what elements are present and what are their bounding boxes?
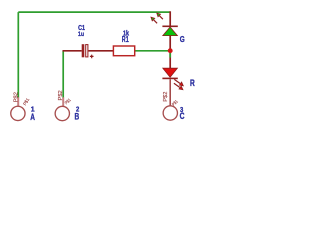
connector J3 pin leg: [169, 79, 171, 106]
capacitor C1 plate positive: [86, 45, 88, 57]
connector J1 pin leg: [17, 97, 19, 106]
svg-text:B: B: [75, 112, 80, 122]
svg-text:R: R: [190, 78, 195, 88]
connector J2 circle: [55, 106, 69, 120]
LED D1 lead top: [169, 11, 171, 26]
LED D1 light arrows: [151, 13, 163, 23]
svg-text:P$1: P$1: [22, 97, 30, 106]
svg-text:G: G: [180, 34, 185, 44]
capacitor C1 lead left: [63, 50, 82, 52]
wire vertical from C1 to connector J2: [62, 51, 64, 98]
capacitor C1 plus sign: [90, 55, 94, 59]
capacitor C1 plate negative: [82, 44, 85, 57]
svg-text:P$2: P$2: [163, 91, 169, 101]
LED D1 green cathode bar: [162, 25, 177, 27]
wire from R1 to LED node: [135, 50, 170, 52]
svg-text:P$2: P$2: [14, 92, 20, 102]
svg-text:1k: 1k: [123, 29, 130, 38]
LED D1 green triangle: [163, 27, 178, 36]
wire vertical between LEDs: [169, 35, 171, 68]
LED D2 red cathode bar: [162, 77, 177, 79]
LED D2 light arrows: [174, 79, 184, 89]
svg-text:P$2: P$2: [58, 90, 64, 100]
wire short vertical below junction: [169, 51, 171, 58]
resistor R1 body: [113, 46, 134, 56]
svg-text:C: C: [180, 111, 185, 121]
wire left vertical to connector J1: [17, 12, 19, 98]
capacitor C1 lead right: [88, 50, 113, 52]
svg-text:1u: 1u: [78, 31, 84, 38]
svg-text:P$1: P$1: [64, 97, 72, 105]
wire top horizontal net: [18, 11, 170, 13]
svg-text:A: A: [30, 112, 35, 122]
connector J3 circle: [163, 106, 177, 120]
junction node dot: [168, 48, 173, 53]
connector J1 circle: [11, 106, 25, 120]
connector J2 pin leg: [62, 97, 64, 106]
LED D2 red triangle: [163, 68, 178, 77]
